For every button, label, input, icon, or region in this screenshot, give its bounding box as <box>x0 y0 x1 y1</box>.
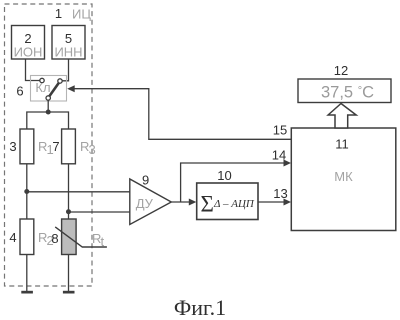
ADC block 10 (sigma-delta) <box>197 183 258 220</box>
svg-text:8: 8 <box>51 231 58 246</box>
block 5 ИНН (current source) <box>52 26 85 60</box>
junction node (bridge top) <box>46 110 51 115</box>
svg-text:15: 15 <box>273 123 287 138</box>
svg-text:3: 3 <box>9 139 16 154</box>
svg-text:МК: МК <box>334 169 353 184</box>
svg-text:Фиг.1: Фиг.1 <box>174 295 226 320</box>
resistor R3 (label 7) <box>52 129 95 164</box>
resistor R2 (label 4) <box>9 219 53 255</box>
junction node B (R3-Rt tap) <box>66 209 71 214</box>
dashed enclosure ИЦ (measuring circuit) <box>5 4 93 286</box>
thermistor Rt (label 8) <box>51 219 107 255</box>
svg-text:10: 10 <box>217 168 231 183</box>
svg-text:1: 1 <box>55 6 62 21</box>
svg-text:37,5 °C: 37,5 °C <box>321 84 374 102</box>
label 6 <box>16 84 23 99</box>
svg-text:6: 6 <box>16 84 23 99</box>
display block 12 (indicator 37,5 C) <box>298 79 391 103</box>
wire 14 (amplifier output to MCU) <box>181 160 291 203</box>
wire R2 to ground <box>26 255 28 292</box>
svg-text:t: t <box>101 234 105 249</box>
ground (left) <box>21 291 33 294</box>
svg-text:12: 12 <box>334 63 348 78</box>
wire ИНН to switch contact <box>62 59 68 81</box>
block 2 ИОН (reference voltage source) <box>12 26 45 60</box>
label 1 <box>55 6 62 21</box>
wire switch pole to bridge node <box>47 100 49 112</box>
svg-text:3: 3 <box>89 142 96 157</box>
label 12 <box>334 63 348 78</box>
label 15 <box>273 123 287 138</box>
net label ИЦ <box>72 7 91 22</box>
label 13 <box>273 186 287 201</box>
block arrow MCU to display <box>328 104 356 129</box>
svg-text:Кл: Кл <box>35 80 50 95</box>
svg-text:Σ: Σ <box>201 192 214 217</box>
svg-text:13: 13 <box>273 186 287 201</box>
wire Rt to ground <box>68 255 70 292</box>
svg-text:9: 9 <box>142 173 149 188</box>
label 10 <box>217 168 231 183</box>
wire ИОН to switch contact <box>26 59 40 81</box>
svg-text:14: 14 <box>272 148 286 163</box>
wire 15 (MCU to switch control) <box>67 85 291 139</box>
junction node A (R1-R2 tap) <box>24 189 29 194</box>
op-amp ДУ (label 9, differential amplifier) <box>130 173 172 225</box>
label 14 <box>272 148 286 163</box>
resistor R1 (label 3) <box>9 129 53 164</box>
svg-text:ИЦ: ИЦ <box>72 7 91 22</box>
wire R1 to R2 <box>26 164 28 219</box>
switch 6 Кл (analog switch) <box>31 76 67 102</box>
caption Фиг.1 <box>174 295 226 320</box>
MCU block 11 МК <box>291 128 396 231</box>
wire 13 (ADC to MCU) <box>258 199 291 206</box>
svg-text:7: 7 <box>52 139 59 154</box>
wire bridge top rail <box>27 112 69 129</box>
svg-text:11: 11 <box>335 137 349 152</box>
svg-text:Δ – АЦП: Δ – АЦП <box>213 198 255 210</box>
svg-text:ИОН: ИОН <box>14 45 43 60</box>
ground (right) <box>63 291 75 294</box>
svg-text:ДУ: ДУ <box>136 196 154 211</box>
wire R3 to Rt <box>68 164 70 219</box>
svg-text:4: 4 <box>9 230 16 245</box>
wire tap A to amplifier input <box>27 191 130 193</box>
wire amplifier output <box>171 199 196 206</box>
svg-text:ИНН: ИНН <box>54 45 82 60</box>
wire tap B to amplifier input <box>69 211 131 213</box>
